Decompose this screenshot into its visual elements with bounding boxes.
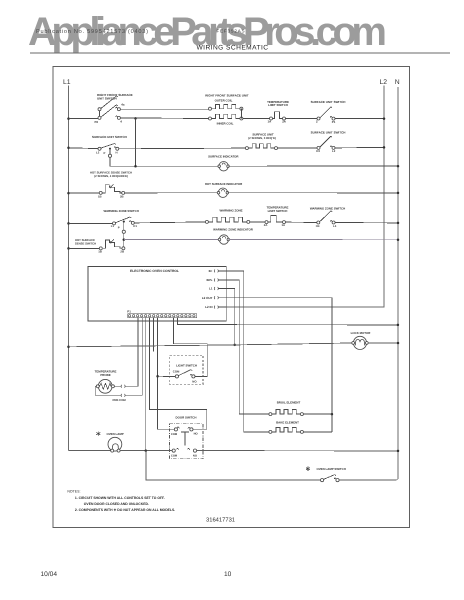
svg-text:BAKE ELEMENT: BAKE ELEMENT (276, 420, 299, 424)
svg-text:L1: L1 (209, 287, 213, 291)
svg-text:DOOR SWITCH: DOOR SWITCH (176, 415, 197, 419)
wire rung1 to L2 (335, 118, 384, 120)
node pilot junction (123, 238, 126, 241)
svg-text:L2: L2 (96, 150, 100, 154)
wire lamp to door switch (120, 450, 172, 452)
svg-text:H4: H4 (316, 224, 320, 228)
wire rung1 bottom branch to inner coil (120, 117, 208, 120)
wire rung1 top branch to outer coil (120, 108, 208, 110)
wire sense rung 2 from L1 (67, 247, 70, 250)
switch oven lamp switch (307, 467, 309, 472)
svg-text:H: H (116, 150, 118, 154)
wire surface indicator line (110, 165, 219, 167)
svg-text:RIGHT FRONT SURFACE UNIT: RIGHT FRONT SURFACE UNIT (205, 94, 249, 98)
svg-text:L2: L2 (380, 79, 388, 86)
wire probe right to connector (114, 385, 121, 387)
svg-text:2A: 2A (282, 120, 287, 124)
wire pilot drop to surface indicator line (109, 149, 111, 155)
wire L2 bus / L2 IN feed (226, 86, 384, 307)
svg-text:BPL: BPL (207, 278, 213, 282)
svg-text:NO: NO (192, 379, 197, 383)
svg-text:OVEN DOOR CLOSED AND UNLOCKED.: OVEN DOOR CLOSED AND UNLOCKED. (84, 502, 149, 506)
svg-text:WARMING ZONE INDICATOR: WARMING ZONE INDICATOR (213, 228, 254, 232)
wire sense rung from L1 (67, 192, 70, 195)
svg-text:LIMIT SWITCH: LIMIT SWITCH (268, 103, 288, 107)
svg-text:PROBE: PROBE (100, 373, 110, 377)
wire strip to light switch COM / door COM (158, 317, 174, 429)
svg-text:L2 IN: L2 IN (205, 305, 212, 309)
svg-text:NOTES:: NOTES: (67, 490, 80, 494)
svg-text:1. CIRCUIT SHOWN WITH ALL CON: 1. CIRCUIT SHOWN WITH ALL CONTROLS SET T… (75, 496, 165, 500)
wire strip to probe top (125, 317, 138, 386)
resistor inner coil (209, 117, 212, 120)
svg-text:LOCK MOTOR: LOCK MOTOR (351, 331, 372, 335)
actuator link (181, 431, 189, 433)
wire to N bottom (339, 479, 398, 481)
wire element to temp limit switch (250, 221, 265, 223)
svg-text:P2: P2 (95, 120, 99, 124)
wire door switch to N (197, 450, 398, 452)
svg-text:LIGHT SWITCH: LIGHT SWITCH (176, 364, 197, 368)
svg-text:P1: P1 (332, 120, 336, 124)
node light switch COM tap (156, 375, 159, 378)
wire indicator to N (228, 165, 398, 167)
svg-text:COM: COM (171, 455, 178, 458)
wire strip stub (152, 317, 154, 351)
wire coils join (240, 109, 242, 119)
svg-text:H1: H1 (133, 224, 137, 228)
wire rung2 to element (119, 147, 246, 150)
wire vertical junction column (135, 118, 137, 166)
wire warming rung from L1 (67, 222, 70, 225)
svg-text:10: 10 (224, 571, 232, 578)
wire strip to N line (178, 317, 398, 325)
switch door switch upper pole (174, 428, 177, 431)
svg-text:HOT SURFACE INDICATOR: HOT SURFACE INDICATOR (205, 182, 243, 186)
svg-text:2A: 2A (264, 223, 268, 227)
wire L1 to oven lamp (69, 450, 111, 452)
svg-text:(2 SHOWN, 4 REQUIRED): (2 SHOWN, 4 REQUIRED) (94, 174, 128, 178)
svg-text:2B: 2B (120, 194, 124, 198)
wire L1 bus (68, 86, 70, 451)
wire tap to light switch COM (158, 375, 176, 377)
svg-text:OVEN LAMP: OVEN LAMP (107, 432, 124, 436)
svg-text:N: N (395, 79, 400, 86)
wire to N (228, 192, 398, 194)
svg-text:L1: L1 (63, 79, 71, 86)
svg-text:ELECTRONIC OVEN CONTROL: ELECTRONIC OVEN CONTROL (130, 269, 179, 273)
svg-text:P: P (118, 225, 120, 229)
wire warming indicator line (124, 239, 219, 241)
wire to rung1 right switch (286, 118, 318, 120)
svg-text:1B: 1B (98, 250, 102, 254)
wire rung2 from L1 (67, 147, 70, 150)
wire N bus (397, 87, 399, 479)
svg-text:4: 4 (120, 119, 122, 123)
svg-text:FEF352AS: FEF352AS (217, 29, 245, 34)
node pilot tap on blade (123, 221, 125, 223)
svg-text:NO: NO (193, 455, 197, 458)
node pilot tap rung2 (109, 148, 111, 150)
wire rung2 to L2 (335, 146, 384, 149)
wire L2 OUT to elements (226, 298, 332, 432)
wire rung1 from L1 (67, 117, 70, 120)
svg-text:P1: P1 (127, 309, 131, 313)
wire strip to probe common (125, 317, 142, 395)
svg-text:SURFACE UNIT SWITCH: SURFACE UNIT SWITCH (92, 135, 127, 139)
svg-text:L4: L4 (333, 224, 337, 228)
wire L1 pin to lock motor line (226, 289, 234, 345)
svg-text:WARMING ZONE: WARMING ZONE (219, 209, 242, 213)
svg-text:316417731: 316417731 (206, 516, 235, 523)
border frame (53, 67, 410, 528)
node junction to rung2 column (134, 117, 137, 120)
svg-text:COM: COM (173, 370, 180, 374)
svg-text:4a: 4a (121, 103, 125, 107)
svg-text:2. COMPONENTS WITH ✳ DO NOT: 2. COMPONENTS WITH ✳ DO NOT APPEAR ON AL… (75, 508, 175, 512)
svg-text:P: P (104, 151, 106, 155)
svg-text:L2 OUT: L2 OUT (202, 296, 213, 300)
wire warming rung to N (335, 222, 398, 224)
wire L2 IN stub (218, 306, 226, 308)
box light switch (170, 355, 203, 384)
wire strip to door switch NO path (150, 317, 207, 429)
svg-text:10/04: 10/04 (41, 571, 58, 578)
wire element to rung2 right switch (278, 147, 317, 149)
svg-text:1A: 1A (282, 223, 286, 227)
wire B+ to bake element (226, 271, 243, 432)
wire oven lamp switch line (146, 451, 321, 481)
header rule (30, 52, 450, 54)
lamp oven lamp (97, 431, 99, 436)
svg-text:1B: 1B (98, 194, 102, 198)
svg-text:NO: NO (194, 433, 198, 436)
wire to warming right switch (286, 221, 317, 223)
svg-text:L2: L2 (332, 149, 336, 153)
svg-text:OVEN LAMP SWITCH: OVEN LAMP SWITCH (317, 467, 346, 471)
svg-text:WARMING ZONE SWITCH: WARMING ZONE SWITCH (310, 206, 345, 210)
svg-text:L1: L1 (111, 224, 115, 228)
svg-text:COM: COM (171, 433, 178, 436)
wire pilot drop to warming indicator line (123, 222, 125, 231)
wire to N (229, 239, 398, 241)
svg-text:SURFACE UNIT SWITCH: SURFACE UNIT SWITCH (311, 131, 346, 135)
svg-text:WIRING SCHEMATIC: WIRING SCHEMATIC (197, 45, 269, 52)
wire BPL to broil element (226, 280, 239, 414)
wire strip to oven lamp switch column (145, 317, 147, 450)
switch door switch lower pole (172, 449, 175, 452)
wire strip to light switch NO path (174, 317, 208, 376)
svg-text:SENSE SWITCH: SENSE SWITCH (75, 242, 96, 246)
svg-text:BROIL ELEMENT: BROIL ELEMENT (277, 401, 301, 405)
svg-text:WARMING ZONE SWITCH: WARMING ZONE SWITCH (104, 209, 139, 213)
svg-text:B+: B+ (209, 269, 213, 273)
wire motor to N (368, 342, 398, 344)
wire probe left down to prb com (95, 386, 121, 395)
svg-text:INNER COIL: INNER COIL (217, 122, 234, 126)
svg-text:PRB COM: PRB COM (113, 398, 127, 402)
wire sense rung to hot surface indicator (125, 192, 219, 194)
svg-text:2B: 2B (120, 250, 124, 254)
wire L1 to lock motor (67, 346, 70, 349)
svg-text:OUTER COIL: OUTER COIL (215, 98, 233, 102)
svg-text:Publication No. 5995421573 (04: Publication No. 5995421573 (0403) (36, 28, 148, 35)
svg-text:SURFACE INDICATOR: SURFACE INDICATOR (208, 155, 239, 159)
svg-text:LIMIT SWITCH: LIMIT SWITCH (268, 209, 288, 213)
box electronic oven control U1 (88, 267, 226, 321)
svg-text:H3: H3 (316, 149, 320, 153)
svg-text:(2 SHOWN, 3 REQ'D): (2 SHOWN, 3 REQ'D) (248, 136, 276, 140)
wire warming rung to element (134, 222, 205, 223)
svg-text:SURFACE UNIT SWITCH: SURFACE UNIT SWITCH (311, 100, 346, 104)
